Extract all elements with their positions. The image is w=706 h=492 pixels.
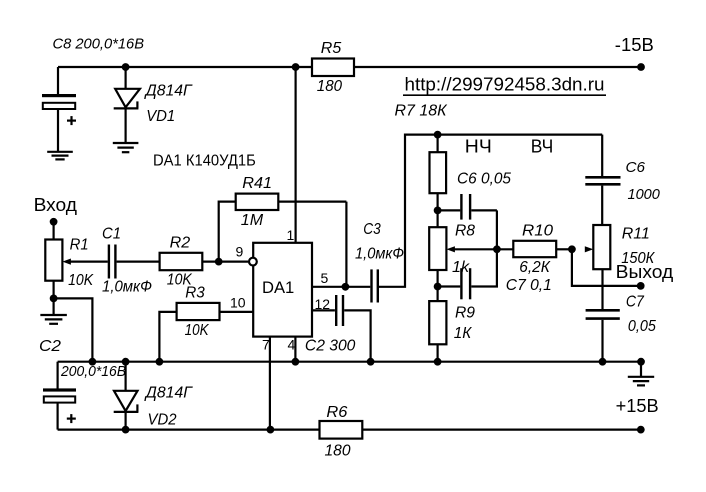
svg-text:R6: R6: [326, 404, 347, 421]
svg-text:Д814Г: Д814Г: [144, 385, 193, 402]
svg-text:10: 10: [230, 295, 246, 311]
resistor R3: [159, 285, 253, 362]
svg-text:1,0мкФ: 1,0мкФ: [355, 246, 404, 263]
svg-text:C2: C2: [39, 338, 61, 355]
label ВЧ: [531, 137, 554, 157]
node VD2 bottom: [122, 426, 130, 434]
terminal -15V: [615, 35, 654, 71]
svg-text:R3: R3: [185, 285, 205, 302]
svg-text:R5: R5: [321, 40, 342, 57]
svg-text:10K: 10K: [185, 322, 210, 339]
capacitor C2 electrolytic: [39, 338, 126, 430]
svg-text:C7: C7: [626, 294, 645, 311]
capacitor C3: [345, 221, 404, 303]
pin 4 label: [288, 337, 296, 353]
svg-text:DA1 К140УД1Б: DA1 К140УД1Б: [153, 153, 256, 170]
svg-text:1,0мкФ: 1,0мкФ: [102, 279, 152, 296]
resistor R5: [312, 40, 354, 95]
svg-text:Вход: Вход: [34, 195, 78, 215]
wire ground rail: [58, 361, 641, 363]
node R9 bottom: [434, 358, 442, 366]
terminal input Вход: [34, 195, 78, 240]
node pin 5: [342, 283, 350, 291]
svg-text:R8: R8: [455, 223, 475, 240]
svg-text:R41: R41: [242, 175, 272, 192]
svg-text:C6: C6: [626, 159, 646, 176]
svg-text:VD1: VD1: [146, 108, 175, 125]
terminal +15V: [637, 426, 645, 434]
node rail pin4 tap: [292, 358, 300, 366]
capacitor C7 0,1: [438, 249, 552, 299]
wire R10 node to output: [572, 249, 641, 286]
pin 7 label: [262, 337, 270, 353]
wire top of tone network: [438, 134, 603, 136]
ground under C8: [47, 152, 73, 160]
label http: [403, 75, 606, 96]
op-amp DA1: [253, 243, 312, 337]
capacitor C7 0,05: [586, 294, 656, 362]
svg-text:C2 300: C2 300: [305, 338, 356, 355]
node R7 top: [434, 131, 442, 139]
capacitor C2 300: [305, 295, 371, 362]
capacitor C1: [102, 226, 152, 296]
svg-text:0,05: 0,05: [628, 318, 656, 335]
node R10 right: [568, 245, 576, 253]
resistor R2: [160, 235, 203, 289]
ground right: [628, 362, 654, 386]
ground under VD1: [113, 143, 139, 152]
wire wiper bus: [453, 248, 572, 250]
wire C6 to wiper node: [496, 210, 498, 249]
wire R2 to pin 9: [202, 261, 248, 263]
svg-text:C3: C3: [363, 221, 381, 238]
svg-text:C8 200,0*16В: C8 200,0*16В: [53, 35, 145, 52]
node rail R1 tap: [89, 358, 97, 366]
node C7 bottom on rail: [599, 358, 607, 366]
wire pin 4: [294, 337, 296, 362]
svg-text:-15В: -15В: [615, 35, 654, 55]
wire R1 bottom: [52, 281, 54, 299]
wire +15V rail: [58, 429, 641, 431]
pin 5 label: [321, 270, 329, 286]
pin 9 bubble: [249, 258, 257, 266]
node rail R3 tap: [156, 358, 164, 366]
pin 12 label: [315, 296, 331, 312]
svg-text:C1: C1: [102, 226, 121, 243]
resistor R41: [219, 175, 347, 262]
label НЧ: [465, 137, 492, 157]
node rail VD2 tap: [122, 358, 130, 366]
node rail C2-300 tap: [367, 358, 375, 366]
svg-text:R1: R1: [70, 237, 89, 254]
zener diode VD1: [114, 67, 193, 142]
wire R1 node to ground rail: [54, 298, 93, 361]
pin 9 label: [236, 244, 244, 260]
potentiometer R1: [45, 237, 94, 290]
wire C3 to tone network top: [379, 135, 438, 287]
svg-text:http://299792458.3dn.ru: http://299792458.3dn.ru: [405, 75, 605, 95]
zener diode VD2: [114, 362, 193, 430]
svg-text:R10: R10: [522, 223, 553, 240]
node pin9/R41: [215, 258, 223, 266]
wire R11 to C7: [601, 269, 603, 309]
resistor R10: [513, 223, 556, 277]
capacitor C6 1000: [585, 135, 660, 225]
svg-text:9: 9: [236, 244, 244, 260]
svg-text:R9: R9: [455, 305, 475, 322]
svg-text:+15В: +15В: [616, 396, 659, 416]
svg-text:Выход: Выход: [616, 262, 674, 282]
node R8 wiper: [493, 245, 501, 253]
svg-text:1К: 1К: [454, 325, 473, 342]
wire -15V top rail: [58, 66, 641, 68]
wire R41 to pin5 node: [345, 202, 347, 287]
svg-text:R2: R2: [170, 235, 191, 252]
resistor R9: [429, 287, 475, 362]
svg-text:5: 5: [321, 270, 329, 286]
node VD1 tap on top rail: [122, 63, 130, 71]
svg-text:Д814Г: Д814Г: [144, 83, 193, 100]
svg-text:1M: 1M: [241, 212, 264, 229]
svg-text:1: 1: [287, 227, 295, 243]
node pin1 tap on top rail: [292, 63, 300, 71]
capacitor C6 0,05: [438, 171, 511, 220]
node R7 bottom: [434, 207, 442, 215]
wire pin 7: [269, 337, 271, 430]
svg-text:180: 180: [317, 78, 342, 95]
ground under R1: [40, 298, 67, 323]
svg-text:ВЧ: ВЧ: [531, 137, 554, 157]
node rail ground symbol: [637, 358, 645, 366]
svg-text:R11: R11: [622, 226, 650, 243]
label +15V: [616, 396, 659, 416]
node R1 ground: [50, 295, 58, 303]
svg-text:DA1: DA1: [262, 278, 294, 297]
capacitor C8: [42, 35, 144, 152]
svg-text:10K: 10K: [68, 272, 94, 289]
wire C1 to R2: [117, 261, 160, 263]
svg-text:200,0*16В: 200,0*16В: [60, 364, 126, 380]
potentiometer R8: [429, 210, 475, 286]
svg-text:C7 0,1: C7 0,1: [506, 277, 552, 294]
wire pin 1: [295, 67, 297, 243]
label R7 value: [395, 103, 449, 120]
resistor R7: [430, 135, 447, 211]
wire pin 5: [312, 286, 345, 288]
pin 10 label: [230, 295, 246, 311]
wire R1 wiper to C1: [70, 261, 108, 263]
potentiometer R11: [585, 225, 656, 269]
svg-text:C6 0,05: C6 0,05: [457, 171, 511, 188]
svg-text:R7 18К: R7 18К: [395, 103, 449, 120]
label DA1 type: [153, 153, 256, 170]
svg-text:6,2К: 6,2К: [519, 259, 551, 276]
resistor R6: [320, 404, 363, 460]
svg-text:1000: 1000: [628, 186, 661, 203]
svg-text:НЧ: НЧ: [465, 137, 492, 157]
pin 1 label: [287, 227, 295, 243]
svg-text:180: 180: [325, 443, 351, 460]
node pin7 bottom: [267, 426, 275, 434]
node R8/R9 junction: [434, 283, 442, 291]
svg-text:VD2: VD2: [148, 412, 177, 429]
terminal output Выход: [616, 262, 674, 290]
